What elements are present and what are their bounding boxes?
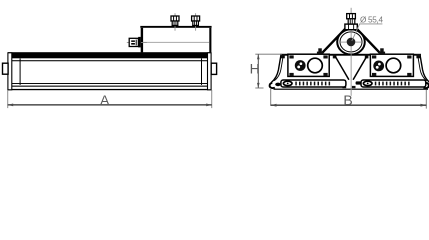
- connector centerline: [127, 41, 147, 44]
- end gland head: [347, 14, 356, 19]
- right foot blob: [415, 81, 421, 85]
- left module screw circle: [295, 60, 306, 71]
- right lens oval: [363, 81, 372, 85]
- body lower inner line: [12, 82, 208, 85]
- dimension B left extension: [270, 89, 271, 106]
- center joint left hook: [342, 80, 346, 85]
- dimension B left arrow: [271, 104, 277, 107]
- right latch block: [211, 63, 216, 74]
- right foot hook: [424, 83, 429, 88]
- bracket tab right: [380, 48, 384, 53]
- luminaire top band: [8, 52, 211, 58]
- cable gland 2 flange: [192, 25, 199, 26]
- left module box: [288, 54, 329, 76]
- cable gland 1 head: [171, 16, 179, 21]
- connector divider: [136, 40, 137, 46]
- right module lens circle: [386, 58, 401, 73]
- dimension A line: [8, 104, 212, 106]
- left lens band: [281, 80, 346, 87]
- connector collar: [138, 37, 141, 48]
- dimension B line: [271, 104, 427, 106]
- cable gland 1 flange: [172, 25, 179, 26]
- driver box top lip: [140, 26, 211, 28]
- cable gland 2 centerline: [194, 13, 197, 31]
- driver box right wall: [209, 28, 211, 53]
- top plateau: [280, 54, 421, 56]
- connector body: [129, 38, 138, 46]
- cable gland 1 head marks: [173, 17, 174, 21]
- bracket leg left: [321, 29, 345, 54]
- dimension H line: [258, 54, 259, 88]
- left module lens circle: [308, 58, 323, 73]
- right end plate: [208, 53, 212, 90]
- V corner blob left: [333, 54, 337, 58]
- bottom line: [274, 89, 429, 90]
- cable gland 1 neck: [172, 21, 178, 26]
- driver box left wall: [141, 28, 143, 53]
- body upper inner line: [10, 60, 208, 61]
- cable gland 2 neck marks: [193, 21, 196, 25]
- right module screw circle: [373, 61, 384, 72]
- leader line: [352, 24, 383, 41]
- V corner blob right: [365, 54, 369, 58]
- right lens ticks: [375, 82, 410, 86]
- dimension H bottom extension: [255, 88, 263, 89]
- svg-text:H: H: [250, 60, 260, 76]
- dimension B right arrow: [421, 104, 427, 107]
- dimension A left arrow: [8, 104, 14, 107]
- end gland neck: [348, 19, 355, 24]
- cable gland 2 head: [192, 16, 200, 21]
- body bottom line 1: [8, 86, 212, 87]
- plateau end blob right: [416, 54, 421, 58]
- bracket tab left: [318, 48, 322, 53]
- left end inner line: [20, 58, 21, 85]
- plateau end blob left: [280, 54, 285, 58]
- right side inner line: [418, 56, 427, 81]
- dimension A right arrow: [206, 104, 212, 107]
- dimension B right extension: [426, 90, 427, 109]
- bracket centerline vertical: [350, 8, 353, 96]
- left side inner line: [274, 56, 283, 81]
- driver box mid gray line: [143, 41, 210, 44]
- svg-text:A: A: [100, 92, 110, 108]
- bracket ring inner: [340, 32, 362, 52]
- cable gland 1 neck marks: [173, 21, 176, 25]
- svg-text:B: B: [343, 92, 352, 108]
- right end inner line: [201, 58, 202, 85]
- dimension A left extension line: [6, 90, 9, 108]
- bracket ring outer: [337, 29, 365, 54]
- dimension H top arrow: [257, 54, 260, 59]
- right side profile: [420, 56, 429, 83]
- right module box: [370, 54, 413, 76]
- bracket centerline horizontal: [339, 41, 363, 44]
- body bottom line 2: [8, 89, 212, 90]
- center V left slope: [335, 56, 349, 80]
- dimension H top extension: [255, 54, 281, 55]
- cable gland 2 neck: [193, 21, 199, 26]
- right lens band: [361, 80, 426, 87]
- center V right slope: [353, 56, 367, 80]
- bracket leg right: [357, 29, 381, 54]
- left module corner blobs: [289, 55, 293, 58]
- center joint right blob: [356, 81, 361, 84]
- left end plate: [8, 53, 12, 90]
- left foot blob: [275, 83, 281, 87]
- cable gland 2 head marks: [194, 17, 195, 21]
- left lens oval: [283, 81, 292, 85]
- bracket boss: [345, 24, 357, 30]
- bracket hub: [347, 38, 356, 47]
- left lens ticks: [295, 82, 330, 86]
- left latch block: [3, 63, 9, 74]
- connector slot 1: [131, 40, 135, 42]
- cable gland 1 centerline: [174, 13, 177, 31]
- left foot hook: [270, 83, 275, 88]
- right module corner blobs: [372, 55, 376, 58]
- dimension H bottom arrow: [257, 83, 260, 88]
- connector slot 2: [131, 43, 135, 45]
- dimension A right extension line: [210, 90, 213, 108]
- svg-text:Ø 55,4: Ø 55,4: [360, 16, 384, 25]
- left side profile: [271, 56, 281, 83]
